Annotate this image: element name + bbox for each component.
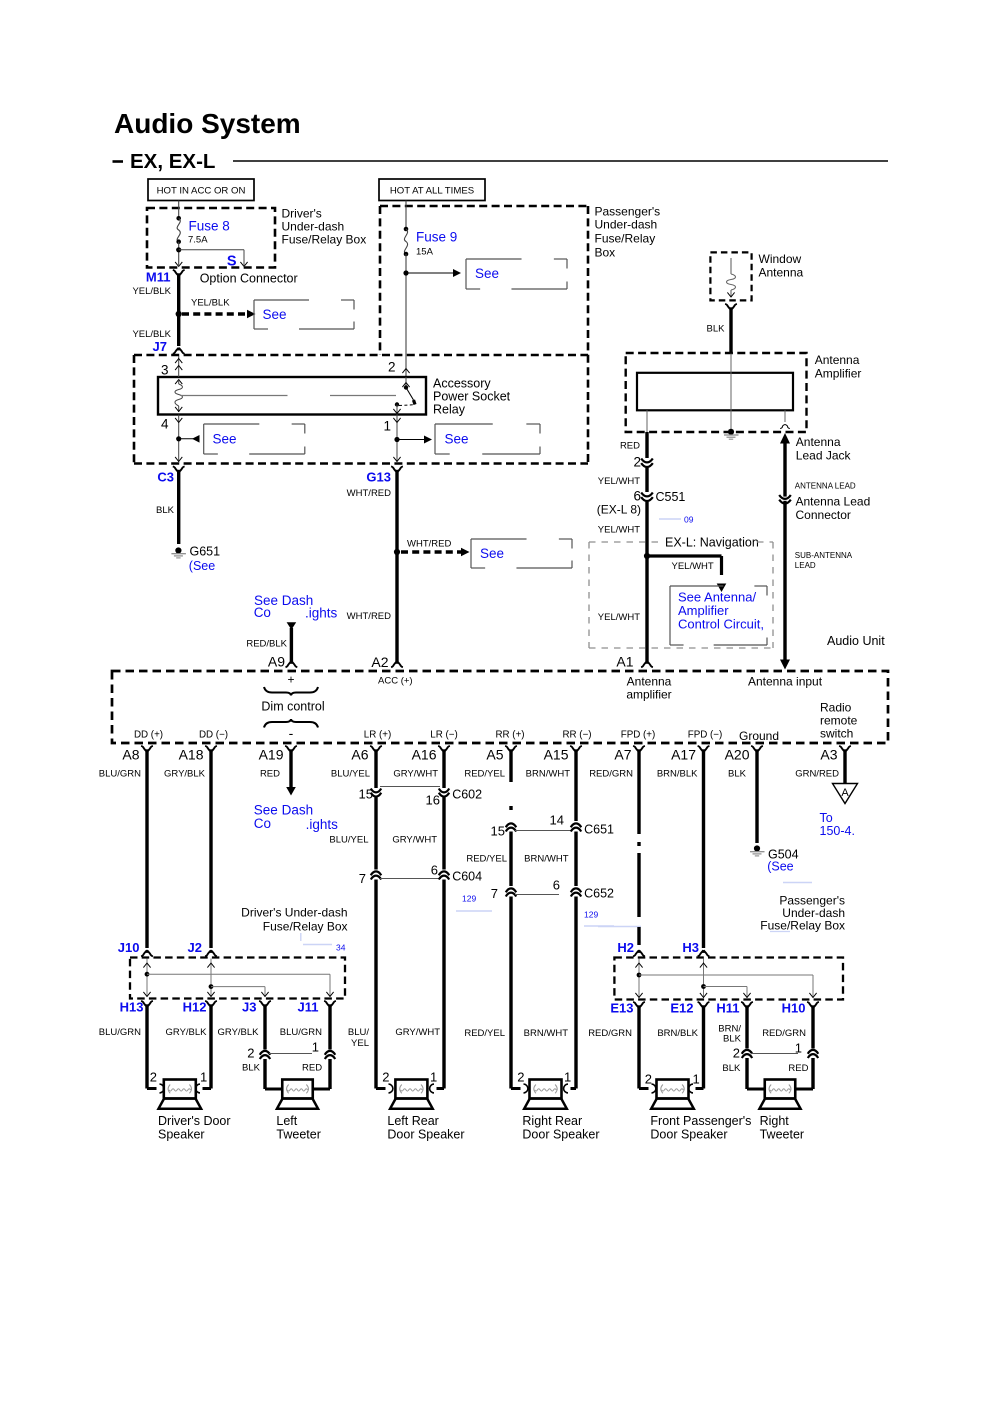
svg-text:J11: J11 [298, 1000, 319, 1015]
svg-text:6: 6 [431, 862, 438, 877]
svg-text:4: 4 [161, 417, 169, 432]
svg-text:See: See [475, 266, 499, 281]
svg-text:GRY/WHT: GRY/WHT [392, 834, 437, 845]
svg-text:LEAD: LEAD [795, 561, 816, 570]
svg-text:16: 16 [426, 792, 440, 807]
svg-text:Antenna: Antenna [759, 265, 804, 279]
svg-text:See: See [263, 307, 287, 322]
svg-text:1: 1 [200, 1069, 207, 1084]
svg-text:2: 2 [645, 1071, 652, 1086]
svg-text:DD (−): DD (−) [199, 729, 228, 740]
svg-text:Antenna: Antenna [815, 353, 860, 367]
svg-text:15A: 15A [416, 246, 434, 257]
svg-text:C3: C3 [157, 469, 174, 484]
svg-text:J7: J7 [153, 339, 167, 354]
svg-text:Under-dash: Under-dash [595, 218, 658, 232]
svg-text:Fuse 9: Fuse 9 [416, 229, 457, 244]
svg-text:BLU/GRN: BLU/GRN [99, 768, 141, 779]
svg-text:Antenna input: Antenna input [748, 674, 823, 688]
svg-text:Fuse/Relay Box: Fuse/Relay Box [282, 233, 367, 247]
svg-text:1: 1 [564, 1069, 571, 1084]
svg-text:Door Speaker: Door Speaker [650, 1127, 727, 1141]
svg-text:RED/GRN: RED/GRN [762, 1028, 806, 1039]
svg-text:2: 2 [733, 1045, 740, 1060]
svg-text:6: 6 [553, 877, 560, 892]
svg-text:6: 6 [633, 489, 641, 504]
svg-text:LR (−): LR (−) [430, 729, 458, 740]
svg-text:BLK: BLK [723, 1033, 742, 1044]
svg-text:Door Speaker: Door Speaker [522, 1127, 599, 1141]
svg-text:G13: G13 [366, 469, 391, 484]
svg-text:RED/YEL: RED/YEL [464, 768, 505, 779]
svg-text:BRN/BLK: BRN/BLK [657, 768, 698, 779]
svg-text:YEL/BLK: YEL/BLK [191, 297, 230, 308]
svg-text:Ground: Ground [739, 729, 779, 743]
svg-text:34: 34 [336, 942, 346, 952]
svg-text:YEL/WHT: YEL/WHT [672, 561, 714, 572]
svg-text:Option Connector: Option Connector [200, 272, 298, 286]
svg-text:Driver's Door: Driver's Door [158, 1114, 231, 1128]
svg-text:A6: A6 [351, 746, 368, 762]
svg-text:J3: J3 [242, 1000, 256, 1015]
svg-text:YEL/BLK: YEL/BLK [132, 329, 171, 340]
svg-text:Door Speaker: Door Speaker [387, 1127, 464, 1141]
svg-text:A16: A16 [412, 746, 437, 762]
svg-text:129: 129 [462, 893, 476, 903]
svg-text:1: 1 [430, 1069, 437, 1084]
svg-text:J10: J10 [118, 940, 140, 955]
svg-text:Window: Window [759, 252, 802, 266]
svg-text:EX, EX-L: EX, EX-L [130, 150, 215, 173]
svg-text:.ights: .ights [305, 605, 338, 620]
svg-text:2: 2 [150, 1069, 157, 1084]
svg-text:15: 15 [359, 786, 373, 801]
svg-text:Connector: Connector [796, 508, 851, 522]
svg-text:BLK: BLK [728, 768, 747, 779]
svg-text:(See: (See [189, 559, 215, 573]
svg-text:BLK: BLK [242, 1062, 261, 1073]
svg-text:J2: J2 [188, 940, 202, 955]
svg-text:1: 1 [383, 419, 391, 434]
svg-text:09: 09 [684, 514, 694, 524]
svg-text:RR (+): RR (+) [495, 729, 524, 740]
svg-text:amplifier: amplifier [626, 687, 671, 701]
svg-text:BRN/WHT: BRN/WHT [526, 768, 571, 779]
svg-text:A20: A20 [725, 746, 750, 762]
svg-text:BLU/: BLU/ [348, 1027, 369, 1038]
svg-text:RED/YEL: RED/YEL [466, 853, 507, 864]
svg-text:C651: C651 [584, 822, 614, 836]
svg-text:2: 2 [633, 455, 641, 470]
svg-text:BLU/YEL: BLU/YEL [329, 834, 368, 845]
svg-text:HOT AT ALL TIMES: HOT AT ALL TIMES [390, 185, 474, 196]
svg-text:YEL: YEL [351, 1038, 369, 1049]
svg-text:BLK: BLK [156, 505, 175, 516]
svg-text:RED: RED [620, 441, 640, 452]
svg-text:H11: H11 [716, 1001, 739, 1016]
svg-text:E12: E12 [670, 1001, 693, 1016]
svg-text:1: 1 [312, 1039, 319, 1054]
svg-text:WHT/RED: WHT/RED [407, 538, 451, 549]
svg-text:H2: H2 [617, 940, 634, 955]
svg-text:GRY/WHT: GRY/WHT [395, 1027, 440, 1038]
svg-text:ANTENNA LEAD: ANTENNA LEAD [795, 482, 856, 491]
svg-text:A: A [841, 787, 849, 799]
svg-text:Left: Left [276, 1114, 297, 1128]
svg-text:SUB-ANTENNA: SUB-ANTENNA [795, 551, 853, 560]
svg-text:WHT/RED: WHT/RED [347, 611, 391, 622]
svg-text:Accessory: Accessory [433, 376, 491, 390]
svg-text:A2: A2 [371, 654, 388, 670]
svg-text:HOT IN ACC OR ON: HOT IN ACC OR ON [157, 185, 246, 196]
svg-text:A18: A18 [179, 746, 204, 762]
svg-text:GRY/BLK: GRY/BLK [165, 1027, 207, 1038]
svg-text:RED: RED [788, 1063, 808, 1074]
svg-text:switch: switch [820, 726, 853, 740]
svg-text:Audio Unit: Audio Unit [827, 634, 885, 648]
svg-text:A17: A17 [671, 746, 696, 762]
svg-text:Lead Jack: Lead Jack [796, 448, 852, 462]
svg-text:C604: C604 [452, 869, 482, 883]
svg-text:Control Circuit,: Control Circuit, [678, 616, 764, 631]
svg-text:H12: H12 [183, 1000, 207, 1015]
svg-text:7.5A: 7.5A [188, 234, 208, 245]
svg-text:H3: H3 [682, 940, 699, 955]
svg-text:150-4.: 150-4. [820, 824, 855, 838]
svg-text:Tweeter: Tweeter [276, 1127, 320, 1141]
svg-text:BLU/GRN: BLU/GRN [99, 1027, 141, 1038]
svg-text:A19: A19 [259, 746, 284, 762]
svg-text:7: 7 [359, 871, 366, 886]
svg-text:15: 15 [491, 823, 505, 838]
svg-text:Antenna Lead: Antenna Lead [796, 494, 871, 508]
svg-text:EX-L: Navigation: EX-L: Navigation [665, 535, 759, 549]
svg-text:14: 14 [550, 812, 564, 827]
svg-text:YEL/BLK: YEL/BLK [132, 286, 171, 297]
svg-text:BRN/BLK: BRN/BLK [657, 1028, 698, 1039]
svg-text:.ights: .ights [306, 817, 339, 832]
svg-text:C551: C551 [656, 490, 686, 504]
svg-text:RED: RED [302, 1062, 322, 1073]
svg-text:H10: H10 [782, 1001, 806, 1016]
svg-text:+: + [287, 673, 294, 687]
svg-text:A7: A7 [614, 746, 631, 762]
svg-text:Audio System: Audio System [114, 108, 301, 139]
svg-text:Fuse/Relay Box: Fuse/Relay Box [263, 920, 348, 934]
svg-text:Fuse 8: Fuse 8 [189, 218, 230, 233]
svg-text:1: 1 [693, 1071, 700, 1086]
svg-text:BLK: BLK [707, 323, 726, 334]
svg-text:RED: RED [260, 768, 280, 779]
svg-text:2: 2 [247, 1045, 254, 1060]
svg-text:A9: A9 [268, 653, 285, 669]
svg-text:RED/YEL: RED/YEL [464, 1028, 505, 1039]
svg-text:(See: (See [767, 859, 793, 873]
svg-text:C652: C652 [584, 886, 614, 900]
svg-text:See: See [480, 546, 504, 561]
svg-text:Tweeter: Tweeter [760, 1127, 804, 1141]
svg-text:RED/BLK: RED/BLK [246, 638, 287, 649]
svg-text:GRY/BLK: GRY/BLK [164, 768, 206, 779]
svg-text:2: 2 [388, 360, 396, 375]
svg-text:Fuse/Relay Box: Fuse/Relay Box [760, 918, 845, 932]
svg-text:G651: G651 [190, 544, 221, 558]
svg-text:GRY/BLK: GRY/BLK [217, 1027, 259, 1038]
svg-text:See: See [445, 431, 469, 446]
svg-text:BRN/WHT: BRN/WHT [524, 1028, 569, 1039]
svg-text:E13: E13 [610, 1001, 633, 1016]
svg-text:Right: Right [760, 1114, 790, 1128]
svg-text:A5: A5 [486, 746, 503, 762]
svg-text:WHT/RED: WHT/RED [347, 488, 391, 499]
svg-text:BLK: BLK [722, 1063, 741, 1074]
svg-text:RED/GRN: RED/GRN [589, 768, 633, 779]
svg-text:BLU/YEL: BLU/YEL [331, 768, 370, 779]
svg-text:GRY/WHT: GRY/WHT [393, 768, 438, 779]
svg-text:LR (+): LR (+) [364, 729, 392, 740]
svg-text:(EX-L 8): (EX-L 8) [597, 502, 641, 516]
svg-text:RED/GRN: RED/GRN [588, 1028, 632, 1039]
svg-text:M11: M11 [146, 270, 171, 285]
svg-text:2: 2 [382, 1069, 389, 1084]
svg-text:-: - [289, 725, 294, 741]
svg-text:RR (−): RR (−) [562, 729, 591, 740]
svg-text:A3: A3 [820, 746, 837, 762]
svg-text:Radio: Radio [820, 700, 852, 714]
svg-text:Driver's Under-dash: Driver's Under-dash [241, 906, 347, 920]
svg-text:remote: remote [820, 713, 858, 727]
svg-text:A8: A8 [122, 746, 139, 762]
svg-text:Co: Co [254, 605, 271, 620]
svg-text:2: 2 [517, 1069, 524, 1084]
svg-text:Passenger's: Passenger's [595, 205, 661, 219]
svg-text:See: See [213, 431, 237, 446]
svg-text:ACC (+): ACC (+) [378, 675, 413, 686]
svg-text:DD (+): DD (+) [134, 729, 163, 740]
svg-text:7: 7 [491, 886, 498, 901]
svg-text:GRN/RED: GRN/RED [795, 768, 839, 779]
svg-text:Under-dash: Under-dash [282, 220, 345, 234]
svg-text:Antenna: Antenna [627, 674, 672, 688]
svg-text:C602: C602 [452, 787, 482, 801]
svg-text:Relay: Relay [433, 402, 466, 416]
svg-text:Front Passenger's: Front Passenger's [650, 1114, 751, 1128]
svg-text:YEL/WHT: YEL/WHT [598, 476, 640, 487]
svg-text:Right Rear: Right Rear [522, 1114, 582, 1128]
svg-text:3: 3 [161, 363, 169, 378]
svg-text:YEL/WHT: YEL/WHT [598, 524, 640, 535]
svg-text:S: S [227, 253, 237, 269]
svg-text:BRN/WHT: BRN/WHT [524, 853, 569, 864]
svg-text:To: To [820, 811, 833, 825]
svg-text:Amplifier: Amplifier [815, 366, 862, 380]
svg-text:Driver's: Driver's [282, 207, 322, 221]
svg-text:Antenna: Antenna [796, 435, 841, 449]
svg-text:FPD (+): FPD (+) [621, 729, 656, 740]
svg-text:Fuse/Relay: Fuse/Relay [595, 232, 656, 246]
svg-text:Co: Co [254, 816, 271, 831]
svg-text:FPD (−): FPD (−) [688, 729, 723, 740]
svg-text:A1: A1 [616, 653, 633, 669]
svg-text:H13: H13 [120, 1000, 144, 1015]
svg-text:Power Socket: Power Socket [433, 389, 511, 403]
svg-text:Box: Box [595, 246, 616, 260]
svg-text:BLU/GRN: BLU/GRN [280, 1027, 322, 1038]
svg-text:A15: A15 [544, 746, 569, 762]
svg-text:Dim control: Dim control [261, 699, 324, 713]
svg-text:YEL/WHT: YEL/WHT [598, 612, 640, 623]
svg-text:Speaker: Speaker [158, 1127, 205, 1141]
svg-text:Left Rear: Left Rear [387, 1114, 438, 1128]
svg-text:129: 129 [584, 909, 598, 919]
